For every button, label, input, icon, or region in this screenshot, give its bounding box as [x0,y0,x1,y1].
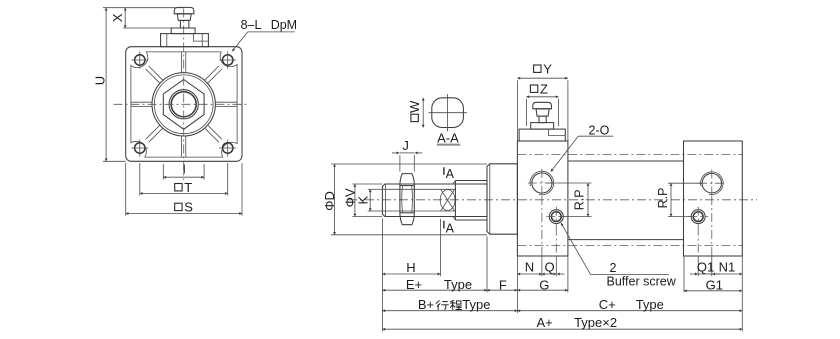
dimension X [110,8,181,28]
rear port hole [698,170,725,197]
head valve plate [519,129,565,141]
svg-text:Type: Type [444,277,472,292]
svg-text:T: T [184,180,192,195]
front vertical centerline [183,9,185,181]
head port hole 2-O [528,169,556,197]
svg-text:2: 2 [610,261,617,275]
head valve base [531,123,554,130]
svg-text:R.P: R.P [656,188,670,209]
dimension Q1 [690,260,720,275]
piston rod threaded section [382,184,487,217]
thread minor lines [383,189,455,211]
head valve cap [533,102,552,109]
front flange inner contour [131,52,237,157]
dimension I [163,162,204,180]
svg-text:I: I [182,162,186,177]
bolt hole L3 [131,140,148,157]
svg-text:Buffer screw: Buffer screw [607,275,677,289]
dimension B+stroke Type [382,297,517,312]
dimension R.P head [546,183,592,217]
dimension R.P rear [656,183,702,216]
rear buffer screw [688,207,708,227]
A-A horizontal centerline [429,112,467,114]
svg-text:U: U [92,76,107,85]
dimension G [517,277,568,292]
tie rod centerline bottom [517,245,742,247]
rib diagonal 3 [146,125,163,142]
label A-A [437,130,460,145]
svg-text:K: K [355,196,370,205]
svg-text:N1: N1 [719,260,736,275]
dimension F [487,277,517,292]
rib right [215,102,237,106]
svg-text:F: F [499,277,507,292]
front flange plate outer square [126,47,242,162]
svg-text:DpM: DpM [271,18,297,32]
collar / gland flange [487,164,517,234]
central tube circle [152,73,215,136]
A-A vertical centerline [447,94,449,131]
bolt hole L2 [219,52,236,69]
svg-text:A-A: A-A [437,130,459,145]
head buffer screw [546,207,566,227]
svg-text:2-O: 2-O [589,124,610,138]
dimension Y [517,61,568,141]
dimension N [517,260,542,275]
svg-text:G: G [539,277,549,292]
svg-text:Q: Q [544,260,554,275]
dimension T [140,163,228,196]
section cut mark A bottom [444,221,455,236]
svg-text:A: A [446,167,455,181]
bolt hole L4 [219,140,236,157]
svg-text:N: N [525,260,534,275]
dimension A+Type x2 [382,315,742,330]
svg-text:H: H [406,260,415,275]
svg-text:W: W [407,100,422,113]
rib diagonal 1 [146,66,163,83]
dimension N1 [712,260,743,275]
svg-text:B+: B+ [418,297,434,312]
cylinder tube [568,161,684,240]
label 2 Buffer screw with leader [561,223,677,289]
head valve neck [536,109,549,116]
dimension E+Type [382,277,487,292]
svg-text:Type: Type [636,297,664,312]
port valve block (front) [161,34,209,47]
svg-text:A+: A+ [536,315,552,330]
svg-text:C+: C+ [599,297,616,312]
dimension J [392,138,422,172]
svg-text:Y: Y [543,61,552,76]
label 2-O with leader [551,124,614,172]
front horizontal centerline [114,103,247,105]
rib diagonal 4 [205,125,222,142]
dimension H [382,260,440,275]
rib top [182,52,186,73]
rod nut [400,174,414,225]
svg-text:E+: E+ [406,277,422,292]
svg-text:J: J [402,138,409,153]
port valve stem (front) [180,20,189,28]
dimension S [126,163,242,216]
svg-text:Type×2: Type×2 [574,315,617,330]
svg-text:A: A [446,221,455,235]
head cover block [517,141,568,256]
port valve flange (front) [171,28,195,34]
dimension Q [542,260,565,275]
section cut mark A top [444,167,455,181]
rib diagonal 2 [205,66,222,83]
svg-text:R.P: R.P [573,189,587,210]
rib left [131,102,152,106]
bolt hole L1 [131,52,148,69]
svg-text:Q1: Q1 [697,260,714,275]
svg-text:Type: Type [462,297,490,312]
dimension U [92,8,184,162]
piston rod circles [169,90,198,119]
rib bottom [182,136,186,157]
svg-text:S: S [184,200,193,215]
svg-text:G1: G1 [706,277,723,292]
dimension PhiD [322,164,487,235]
main axis centerline [348,199,757,201]
port valve cap (front) [174,7,194,13]
dimension W [407,98,423,128]
dimension PhiV [342,184,382,217]
section A-A rod profile [432,98,464,128]
head valve stem [539,116,546,123]
wrench flats symbol on rod [440,189,455,211]
label 8-L DpM with leader [232,18,297,52]
dimension C+Type [517,297,742,312]
dimension Z [526,81,558,126]
dimension K [355,189,383,211]
tie rod centerline top [517,154,742,156]
extension lines bottom [382,196,742,331]
svg-text:ΦD: ΦD [322,191,337,211]
rear cover block [684,141,743,256]
svg-text:8–L: 8–L [241,18,262,32]
rod step at gland [453,181,487,221]
rod nut hexagon [163,80,204,130]
port valve neck (front) [177,14,191,21]
dimension G1 [684,277,742,292]
svg-text:X: X [110,13,125,22]
svg-text:Z: Z [540,81,548,96]
